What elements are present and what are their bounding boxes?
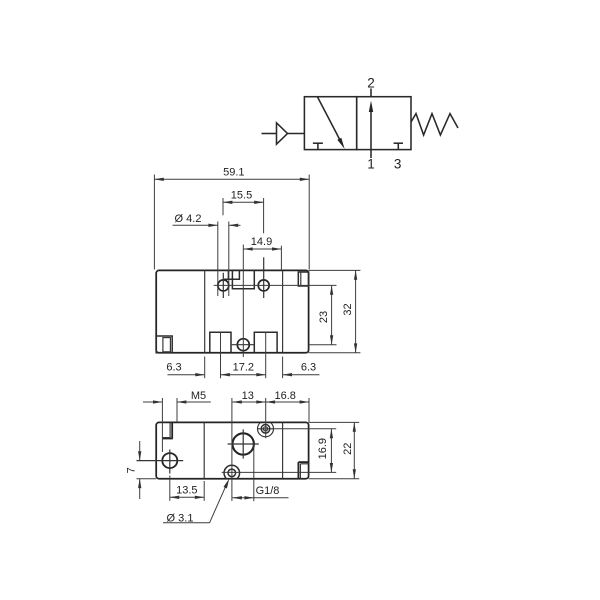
svg-text:3: 3 bbox=[394, 157, 402, 172]
svg-text:16.8: 16.8 bbox=[274, 390, 295, 402]
svg-text:13: 13 bbox=[242, 390, 254, 402]
svg-text:Ø 4.2: Ø 4.2 bbox=[175, 213, 202, 225]
svg-text:32: 32 bbox=[342, 303, 354, 315]
svg-text:1: 1 bbox=[367, 157, 375, 172]
svg-text:6.3: 6.3 bbox=[301, 362, 316, 374]
svg-text:G1/8: G1/8 bbox=[256, 485, 280, 497]
svg-text:59.1: 59.1 bbox=[223, 166, 244, 178]
svg-text:Ø 3.1: Ø 3.1 bbox=[167, 512, 194, 524]
svg-text:14.9: 14.9 bbox=[251, 236, 272, 248]
svg-text:23: 23 bbox=[318, 311, 330, 323]
svg-text:15.5: 15.5 bbox=[231, 190, 252, 202]
svg-text:17.2: 17.2 bbox=[233, 362, 254, 374]
svg-text:22: 22 bbox=[342, 443, 354, 455]
svg-text:16.9: 16.9 bbox=[317, 438, 329, 459]
svg-text:2: 2 bbox=[367, 76, 375, 91]
svg-text:13.5: 13.5 bbox=[176, 485, 197, 497]
svg-text:7: 7 bbox=[126, 467, 138, 473]
svg-text:M5: M5 bbox=[191, 390, 206, 402]
svg-text:6.3: 6.3 bbox=[166, 362, 181, 374]
